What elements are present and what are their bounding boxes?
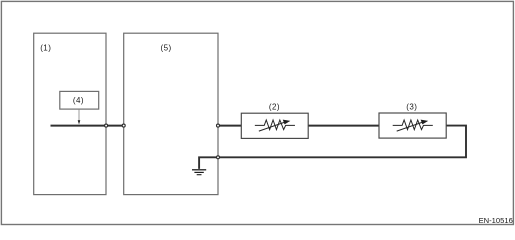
svg-text:EN-10516: EN-10516 <box>479 216 513 225</box>
svg-text:(3): (3) <box>406 102 417 111</box>
svg-text:(2): (2) <box>269 102 280 111</box>
svg-text:(5): (5) <box>161 43 172 52</box>
svg-text:(1): (1) <box>40 43 51 52</box>
svg-text:(4): (4) <box>73 96 84 105</box>
